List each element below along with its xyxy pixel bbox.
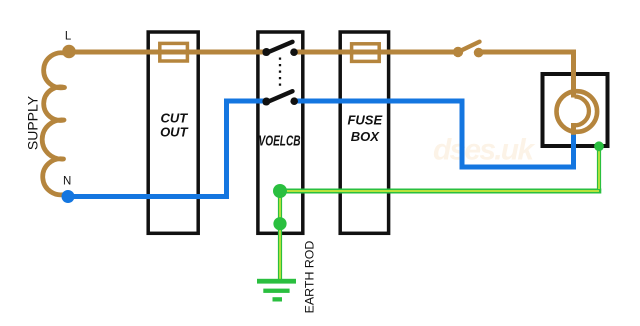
svg-text:SUPPLY: SUPPLY xyxy=(25,95,41,150)
svg-text:EARTH ROD: EARTH ROD xyxy=(303,241,317,314)
svg-text:OUT: OUT xyxy=(160,125,189,140)
svg-text:FUSE: FUSE xyxy=(347,112,382,127)
svg-text:N: N xyxy=(63,176,71,188)
svg-text:L: L xyxy=(65,31,72,43)
svg-text:BOX: BOX xyxy=(351,129,381,144)
svg-text:VOELCB: VOELCB xyxy=(259,133,301,149)
svg-text:CUT: CUT xyxy=(160,110,188,125)
svg-text:dses.uk: dses.uk xyxy=(433,134,535,167)
